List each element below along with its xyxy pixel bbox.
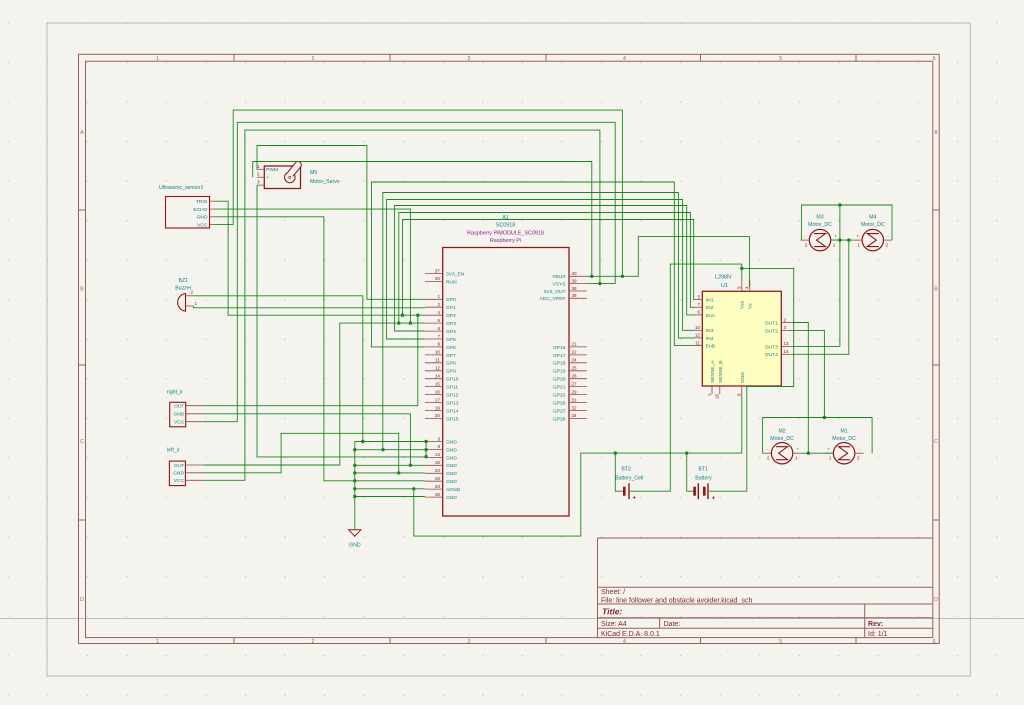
wire left_ir VCC to VSYS bbox=[204, 130, 600, 480]
wire L298N OUT4 to M4 bbox=[793, 240, 849, 354]
svg-text:1: 1 bbox=[156, 56, 159, 62]
junction BT1 - bbox=[685, 451, 688, 454]
svg-text:3: 3 bbox=[257, 180, 260, 185]
svg-text:BT1: BT1 bbox=[698, 467, 708, 473]
svg-text:KiCad E.D.A. 8.0.1: KiCad E.D.A. 8.0.1 bbox=[601, 631, 660, 638]
svg-text:15: 15 bbox=[435, 381, 441, 386]
svg-text:1: 1 bbox=[437, 294, 440, 299]
svg-text:GP10: GP10 bbox=[446, 377, 459, 383]
svg-text:38: 38 bbox=[435, 492, 441, 497]
svg-text:M1: M1 bbox=[840, 428, 847, 434]
junction Vss junction bbox=[740, 267, 743, 270]
wire AGND to battery/L298N GND rail bbox=[414, 394, 742, 536]
junction M3/M4 rail bbox=[838, 203, 841, 206]
svg-text:37: 37 bbox=[435, 268, 441, 273]
junction GND13 tie bbox=[424, 455, 427, 458]
battery BT1 Battery symbol bbox=[695, 483, 716, 502]
junction GND8 main bbox=[353, 448, 356, 451]
wire M3.2-M4.2 rail bbox=[801, 205, 892, 240]
motor M4 labels bbox=[861, 215, 885, 229]
RPi reference A1 labels bbox=[467, 215, 544, 244]
svg-text:8: 8 bbox=[437, 444, 440, 449]
RPi pins 3V3_EN / RUN bbox=[425, 268, 465, 285]
svg-text:GND: GND bbox=[446, 471, 457, 477]
svg-text:C: C bbox=[80, 439, 84, 445]
svg-text:2: 2 bbox=[257, 172, 260, 177]
svg-text:GND: GND bbox=[197, 215, 208, 221]
motor M2 symbol bbox=[763, 443, 802, 464]
junction GP2/right_ir OUT bbox=[416, 314, 419, 317]
svg-text:Buzzer: Buzzer bbox=[175, 286, 191, 292]
junction OUT2/rail bbox=[823, 416, 826, 419]
svg-text:Motor_Servo: Motor_Servo bbox=[310, 179, 340, 185]
svg-text:IN2: IN2 bbox=[706, 305, 714, 311]
svg-text:Title:: Title: bbox=[602, 607, 623, 617]
svg-text:Rev:: Rev: bbox=[868, 621, 883, 628]
svg-text:7: 7 bbox=[697, 302, 700, 307]
wire ultrasonic GND to RPi GND28 bbox=[215, 217, 425, 481]
svg-text:34: 34 bbox=[572, 413, 578, 418]
svg-text:IN4: IN4 bbox=[706, 336, 714, 342]
svg-text:Date:: Date: bbox=[664, 621, 681, 628]
svg-text:39: 39 bbox=[572, 278, 578, 283]
svg-text:2: 2 bbox=[784, 317, 787, 322]
wire Vss pin wire bbox=[741, 268, 743, 279]
svg-text:GND: GND bbox=[173, 471, 184, 477]
svg-text:6: 6 bbox=[933, 639, 936, 645]
svg-text:+: + bbox=[796, 447, 799, 452]
svg-text:3: 3 bbox=[468, 639, 471, 645]
svg-text:3: 3 bbox=[784, 325, 787, 330]
motor M3 labels bbox=[808, 215, 832, 229]
wire L298N OUT1 down bbox=[793, 323, 809, 454]
wire RPi GND8 row bbox=[355, 449, 425, 451]
svg-text:SC0918: SC0918 bbox=[496, 223, 515, 229]
wire RPi GND38 row bbox=[355, 496, 425, 498]
svg-text:8: 8 bbox=[737, 393, 742, 396]
frame row letters bbox=[80, 130, 938, 603]
wire servo PWM to GP0 bbox=[257, 146, 425, 300]
svg-text:SENSE_B: SENSE_B bbox=[718, 360, 724, 383]
svg-text:1: 1 bbox=[795, 456, 798, 461]
svg-text:GP22: GP22 bbox=[553, 392, 566, 398]
svg-text:right_ir: right_ir bbox=[167, 389, 183, 395]
svg-text:Motor_DC: Motor_DC bbox=[770, 436, 794, 442]
junction GND28 main bbox=[353, 479, 356, 482]
junction GND38 main bbox=[353, 495, 356, 498]
RPi pins VBUS/VSYS/3V3_OUT/ADC_VREF bbox=[539, 271, 586, 302]
RPi GND pins bbox=[425, 436, 461, 501]
svg-text:22: 22 bbox=[572, 350, 578, 355]
wire left_ir OUT to GP3 bbox=[204, 323, 425, 465]
junction M4 pin1 bbox=[847, 238, 850, 241]
svg-text:Ultrasonic_sensor1: Ultrasonic_sensor1 bbox=[159, 185, 204, 191]
svg-text:ADC_VREF: ADC_VREF bbox=[539, 296, 565, 302]
sheet border frame bbox=[79, 54, 940, 643]
svg-text:GP19: GP19 bbox=[553, 369, 566, 375]
svg-text:Size: A4: Size: A4 bbox=[601, 621, 627, 628]
right_ir label bbox=[167, 389, 183, 395]
junction VSYS/left_ir VCC bbox=[598, 282, 601, 285]
svg-text:16: 16 bbox=[435, 389, 441, 394]
svg-text:ECHO: ECHO bbox=[193, 207, 207, 213]
L298N left pins IN1 IN2 EnA IN3 IN4 EnB bbox=[695, 294, 716, 349]
svg-text:OUT1: OUT1 bbox=[765, 320, 778, 326]
wire RPi AGND row bbox=[355, 488, 425, 490]
svg-text:OUT3: OUT3 bbox=[765, 344, 778, 350]
battery BT1 labels bbox=[695, 467, 712, 482]
wire servo - to GND13 bbox=[257, 185, 425, 457]
svg-text:24: 24 bbox=[572, 358, 578, 363]
ultrasonic label bbox=[159, 185, 204, 191]
svg-text:14: 14 bbox=[784, 349, 790, 354]
ultrasonic sensor Ultrasonic_sensor1 body bbox=[166, 197, 210, 229]
wire M2.1-M1.1 row bbox=[802, 452, 834, 454]
svg-text:A1: A1 bbox=[502, 215, 509, 221]
svg-text:32: 32 bbox=[572, 405, 578, 410]
svg-text:Raspberry PiMODULE_SC0918: Raspberry PiMODULE_SC0918 bbox=[467, 230, 544, 236]
svg-text:+: + bbox=[827, 447, 830, 452]
junction GND3/buzzer bbox=[361, 440, 364, 443]
svg-text:GP27: GP27 bbox=[553, 408, 566, 414]
svg-text:4: 4 bbox=[623, 56, 626, 62]
svg-text:Raspberry Pi: Raspberry Pi bbox=[490, 238, 521, 244]
svg-text:9: 9 bbox=[437, 342, 440, 347]
svg-text:GP3: GP3 bbox=[446, 321, 456, 327]
svg-text:+: + bbox=[856, 234, 859, 239]
svg-text:GP12: GP12 bbox=[446, 392, 459, 398]
svg-text:Battery_Cell: Battery_Cell bbox=[615, 475, 643, 481]
svg-text:PWM: PWM bbox=[266, 167, 278, 173]
junction GND23 main bbox=[353, 471, 356, 474]
wire L298N OUT3 to M3/M4 bbox=[793, 240, 840, 346]
wire L298N OUT2 down bbox=[793, 330, 825, 417]
svg-text:27: 27 bbox=[572, 381, 578, 386]
svg-text:4: 4 bbox=[744, 286, 749, 289]
RPi pins GP0-GP15 bbox=[425, 294, 459, 422]
RPi module A1 symbol body bbox=[443, 248, 569, 517]
wire ground vertical bbox=[354, 442, 356, 530]
svg-text:10: 10 bbox=[435, 350, 441, 355]
svg-text:OUT: OUT bbox=[174, 463, 184, 469]
svg-text:21: 21 bbox=[572, 342, 578, 347]
junction BT2 - bbox=[614, 451, 617, 454]
junction GND8/IN4 bbox=[381, 448, 384, 451]
svg-text:EnB: EnB bbox=[706, 344, 715, 350]
svg-text:U1: U1 bbox=[721, 283, 728, 289]
svg-text:GND: GND bbox=[446, 479, 457, 485]
motor M3 symbol bbox=[801, 229, 840, 250]
svg-text:B: B bbox=[934, 287, 938, 293]
wire BT2 + to L298N Vss bbox=[630, 264, 742, 491]
svg-text:L298N: L298N bbox=[715, 274, 731, 280]
svg-text:36: 36 bbox=[572, 286, 578, 291]
wire right_ir VCC to VSYS bbox=[204, 122, 616, 421]
svg-text:GND: GND bbox=[173, 412, 184, 418]
svg-text:2: 2 bbox=[767, 456, 770, 461]
svg-text:GP2: GP2 bbox=[446, 313, 456, 319]
svg-text:40: 40 bbox=[572, 271, 578, 276]
svg-text:GP13: GP13 bbox=[446, 400, 459, 406]
svg-text:12: 12 bbox=[695, 333, 701, 338]
L298N U1 symbol body bbox=[702, 291, 781, 386]
svg-text:GND: GND bbox=[446, 463, 457, 469]
svg-text:GP17: GP17 bbox=[553, 353, 566, 359]
svg-text:VCC: VCC bbox=[174, 478, 185, 484]
svg-text:C: C bbox=[934, 439, 938, 445]
svg-text:IN1: IN1 bbox=[706, 298, 714, 304]
junction VBUS/servo+ bbox=[590, 275, 593, 278]
svg-text:6: 6 bbox=[437, 326, 440, 331]
svg-text:GP11: GP11 bbox=[446, 385, 458, 391]
svg-text:VCC: VCC bbox=[174, 420, 185, 426]
left_ir sensor body bbox=[169, 461, 185, 486]
junction GP3/IN2 bbox=[397, 321, 400, 324]
svg-text:Motor_DC: Motor_DC bbox=[808, 222, 832, 228]
svg-text:25: 25 bbox=[572, 366, 578, 371]
svg-text:2: 2 bbox=[437, 302, 440, 307]
junction AGND main bbox=[353, 487, 356, 490]
buzzer BZ1 symbol bbox=[178, 289, 198, 311]
svg-text:GP0: GP0 bbox=[446, 297, 456, 303]
svg-text:EnA: EnA bbox=[706, 313, 716, 319]
svg-text:GP8: GP8 bbox=[446, 361, 456, 367]
svg-text:GP18: GP18 bbox=[553, 361, 566, 367]
wire GND3-GND13 tie bbox=[425, 442, 427, 457]
svg-text:GP20: GP20 bbox=[553, 377, 566, 383]
svg-text:BT2: BT2 bbox=[621, 467, 631, 473]
wire buzzer pin1 to GP1 bbox=[194, 306, 425, 308]
svg-text:GP15: GP15 bbox=[446, 416, 459, 422]
left_ir label bbox=[167, 447, 180, 453]
svg-text:Vss: Vss bbox=[740, 300, 746, 309]
svg-text:GND: GND bbox=[740, 372, 746, 383]
svg-text:6: 6 bbox=[697, 310, 700, 315]
svg-text:+: + bbox=[834, 234, 837, 239]
svg-text:3: 3 bbox=[437, 436, 440, 441]
svg-text:28: 28 bbox=[435, 476, 441, 481]
svg-text:SENSE_A: SENSE_A bbox=[710, 360, 716, 383]
wire VSYS row bbox=[587, 283, 615, 285]
svg-text:OUT2: OUT2 bbox=[765, 328, 778, 334]
svg-text:26: 26 bbox=[572, 374, 578, 379]
svg-text:GP26: GP26 bbox=[553, 400, 566, 406]
junction GND18 main bbox=[353, 464, 356, 467]
svg-text:M3: M3 bbox=[816, 215, 823, 221]
svg-text:2: 2 bbox=[857, 456, 860, 461]
servo M5 pins 1 PWM, 2 +, 3 - bbox=[257, 164, 278, 190]
svg-text:11: 11 bbox=[695, 340, 700, 345]
wire VBUS to L298N Vs bbox=[587, 237, 750, 287]
ground symbol bbox=[349, 530, 361, 549]
svg-text:19: 19 bbox=[435, 405, 441, 410]
svg-text:M2: M2 bbox=[778, 428, 785, 434]
svg-text:1: 1 bbox=[156, 639, 159, 645]
svg-text:10: 10 bbox=[695, 325, 701, 330]
wire L298N Vss to BT1 + bbox=[709, 268, 794, 491]
svg-text:BZ1: BZ1 bbox=[179, 278, 189, 284]
svg-text:4: 4 bbox=[623, 639, 626, 645]
svg-text:GP16: GP16 bbox=[553, 345, 566, 351]
motor M1 symbol bbox=[825, 443, 864, 464]
wire GP6 to L298N EnB bbox=[371, 182, 694, 347]
svg-text:VCC: VCC bbox=[197, 223, 208, 229]
svg-text:13: 13 bbox=[435, 452, 441, 457]
svg-text:GND: GND bbox=[446, 495, 457, 501]
junction GND8 tie bbox=[424, 448, 427, 451]
svg-text:2: 2 bbox=[312, 639, 315, 645]
servo M5 symbol body bbox=[264, 162, 301, 189]
junction GP2/IN1 bbox=[401, 314, 404, 317]
svg-text:1: 1 bbox=[707, 393, 712, 396]
servo M5 labels bbox=[310, 170, 340, 185]
svg-text:7: 7 bbox=[437, 334, 440, 339]
L298N top pins Vss(9) Vs(4) bbox=[736, 280, 753, 310]
wire RPi GND23 row bbox=[355, 472, 425, 474]
svg-text:GP14: GP14 bbox=[446, 408, 459, 414]
wire servo + to VBUS bbox=[253, 162, 592, 277]
junction AGND/battery rail bbox=[412, 487, 415, 490]
right_ir sensor body bbox=[170, 402, 186, 427]
svg-text:29: 29 bbox=[572, 389, 578, 394]
wire RPi GND8 to L298N IN4 bbox=[383, 193, 695, 450]
right_ir pins OUT GND VCC bbox=[173, 404, 203, 426]
wire ultrasonic VCC to VBUS bbox=[215, 110, 622, 276]
svg-text:GND: GND bbox=[446, 447, 457, 453]
wire RPi GND3 row bbox=[355, 441, 425, 443]
svg-text:+: + bbox=[632, 494, 636, 501]
svg-text:GP28: GP28 bbox=[553, 416, 566, 422]
wire M3 pin1 drop bbox=[839, 205, 841, 240]
wire M2.2-M1.2 rail bbox=[763, 418, 873, 454]
svg-text:IN3: IN3 bbox=[706, 328, 714, 334]
svg-text:Motor_DC: Motor_DC bbox=[861, 222, 885, 228]
svg-text:30: 30 bbox=[435, 276, 441, 281]
svg-text:left_ir: left_ir bbox=[167, 447, 180, 453]
svg-text:Battery: Battery bbox=[695, 475, 712, 481]
svg-text:9: 9 bbox=[736, 286, 741, 289]
svg-text:14: 14 bbox=[435, 374, 441, 379]
svg-text:File: line follower and obstac: File: line follower and obstacle avoider… bbox=[601, 597, 752, 604]
battery BT2 labels bbox=[615, 467, 643, 482]
wire buzzer pin2 to RPi GND3 bbox=[191, 296, 363, 442]
svg-text:20: 20 bbox=[435, 413, 441, 418]
svg-text:23: 23 bbox=[435, 468, 441, 473]
svg-text:11: 11 bbox=[435, 358, 440, 363]
svg-text:GP9: GP9 bbox=[446, 369, 456, 375]
svg-text:13: 13 bbox=[784, 341, 790, 346]
svg-text:5: 5 bbox=[437, 318, 440, 323]
svg-text:Sheet: /: Sheet: / bbox=[601, 589, 625, 596]
svg-text:GP21: GP21 bbox=[553, 385, 566, 391]
wire GP2 to L298N IN1 bbox=[403, 220, 695, 316]
frame column numbers bbox=[156, 56, 936, 645]
wire right_ir GND to RPi GND18 bbox=[204, 414, 411, 466]
svg-text:GP5: GP5 bbox=[446, 337, 456, 343]
svg-text:GND: GND bbox=[349, 543, 361, 549]
svg-text:+: + bbox=[711, 495, 715, 502]
svg-text:1: 1 bbox=[833, 242, 836, 247]
wire right_ir OUT to GP2 bbox=[204, 315, 418, 406]
svg-text:GP6: GP6 bbox=[446, 345, 456, 351]
svg-text:M4: M4 bbox=[869, 215, 876, 221]
svg-text:A: A bbox=[934, 130, 938, 136]
svg-text:Motor_DC: Motor_DC bbox=[832, 436, 856, 442]
RPi pins GP16-GP28 bbox=[553, 342, 587, 423]
horizontal gray guide line bbox=[0, 618, 1024, 620]
svg-text:31: 31 bbox=[572, 397, 578, 402]
junction GND3 tie bbox=[424, 440, 427, 443]
svg-text:33: 33 bbox=[435, 484, 441, 489]
svg-text:4: 4 bbox=[437, 310, 440, 315]
svg-text:M5: M5 bbox=[310, 170, 317, 176]
battery BT2 Battery_Cell symbol bbox=[624, 483, 636, 501]
svg-text:12: 12 bbox=[435, 366, 441, 371]
wire GP5 to L298N IN3 bbox=[387, 200, 695, 340]
wire GP3 to L298N IN2 bbox=[399, 213, 695, 324]
junction GND18/right_ir bbox=[409, 464, 412, 467]
svg-text:2: 2 bbox=[312, 56, 315, 62]
svg-text:Vs: Vs bbox=[748, 303, 754, 309]
title block bbox=[598, 538, 933, 638]
svg-text:VBUS: VBUS bbox=[552, 274, 566, 280]
svg-text:3: 3 bbox=[468, 56, 471, 62]
wire RPi GND18 row bbox=[355, 464, 425, 466]
wire M3.1-M4.1 row bbox=[831, 239, 854, 241]
svg-text:A: A bbox=[80, 130, 84, 136]
motor M2 labels bbox=[770, 428, 794, 442]
svg-text:1: 1 bbox=[195, 301, 198, 306]
svg-text:3V3_EN: 3V3_EN bbox=[446, 271, 465, 277]
wire GP4 to L298N EnA bbox=[395, 206, 695, 332]
wire ultrasonic TRIG to GP2 bbox=[215, 201, 425, 315]
svg-text:5: 5 bbox=[697, 294, 700, 299]
svg-text:OUT4: OUT4 bbox=[765, 352, 778, 358]
svg-text:GND: GND bbox=[446, 439, 457, 445]
L298N U1 reference labels bbox=[715, 274, 731, 289]
wire left_ir GND to RPi GND23 bbox=[204, 433, 399, 473]
junction OUT1/M-row bbox=[807, 452, 810, 455]
svg-text:1: 1 bbox=[858, 242, 861, 247]
motor M1 labels bbox=[832, 428, 856, 442]
motor M4 symbol bbox=[853, 229, 892, 250]
L298N bottom pins SENSE_A(1) SENSE_B(15) GND(8) bbox=[707, 360, 746, 399]
svg-text:3V3_OUT: 3V3_OUT bbox=[544, 289, 566, 295]
junction VBUS/ultrasonic VCC bbox=[621, 275, 624, 278]
svg-text:GP4: GP4 bbox=[446, 329, 456, 335]
svg-text:5: 5 bbox=[779, 56, 782, 62]
svg-text:D: D bbox=[934, 597, 938, 603]
svg-text:AGND: AGND bbox=[446, 487, 461, 493]
junction M3 pin1 bbox=[838, 238, 841, 241]
L298N right pins OUT1-OUT4 bbox=[765, 317, 793, 358]
svg-text:35: 35 bbox=[572, 293, 578, 298]
ultrasonic pins TRIG ECHO GND VCC bbox=[193, 199, 215, 228]
junction GP3/ECHO bbox=[409, 321, 412, 324]
buzzer labels bbox=[175, 278, 191, 292]
junction GND23/left_ir bbox=[397, 471, 400, 474]
svg-text:2: 2 bbox=[805, 242, 808, 247]
wire BT2 - lead bbox=[615, 453, 623, 491]
wire ultrasonic ECHO to GP3 bbox=[215, 209, 410, 323]
left_ir pins OUT GND VCC bbox=[173, 463, 204, 484]
svg-text:17: 17 bbox=[435, 397, 441, 402]
svg-text:GP1: GP1 bbox=[446, 305, 456, 311]
svg-text:GP7: GP7 bbox=[446, 353, 456, 359]
svg-text:15: 15 bbox=[715, 393, 720, 399]
svg-text:18: 18 bbox=[435, 460, 441, 465]
svg-text:VSYS: VSYS bbox=[552, 282, 566, 288]
